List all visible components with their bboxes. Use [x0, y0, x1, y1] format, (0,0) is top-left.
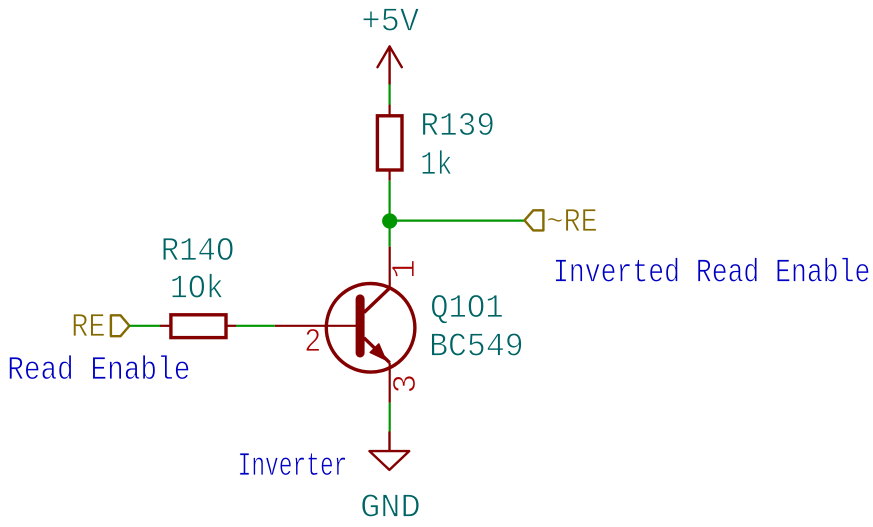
svg-text:2: 2: [304, 324, 321, 361]
wire +5V to R139: [389, 84, 391, 105]
svg-text:1: 1: [387, 259, 424, 279]
pin 2 base: [275, 325, 360, 327]
transistor Q101 body: [326, 284, 415, 373]
wire RE to R140: [129, 325, 160, 327]
svg-text:GND: GND: [360, 489, 421, 526]
wire emitter to GND: [389, 403, 391, 432]
ground symbol GND: [370, 432, 410, 470]
wire R140 to base: [236, 325, 275, 327]
svg-text:1k: 1k: [420, 147, 452, 184]
svg-text:Read Enable: Read Enable: [7, 352, 190, 389]
svg-text:Inverter: Inverter: [238, 448, 348, 485]
resistor R140: [160, 315, 236, 338]
resistor R139: [377, 105, 402, 181]
svg-text:R14O: R14O: [161, 233, 235, 270]
svg-text:Q1O1: Q1O1: [430, 290, 504, 327]
pin 3 emitter: [389, 363, 391, 403]
global label RE: [71, 309, 129, 346]
pin 1 collector: [389, 247, 391, 288]
svg-text:3: 3: [388, 374, 425, 394]
wire R139 to collector node: [389, 181, 391, 247]
svg-text:RE: RE: [71, 309, 106, 346]
junction node: [382, 213, 397, 228]
svg-text:~RE: ~RE: [546, 204, 597, 241]
global label ~RE: [525, 204, 598, 241]
svg-text:1Ok: 1Ok: [170, 271, 224, 308]
svg-text:Inverted Read Enable: Inverted Read Enable: [553, 255, 870, 292]
svg-text:+5V: +5V: [361, 3, 419, 40]
svg-text:R139: R139: [420, 108, 495, 145]
power symbol +5V: [378, 47, 402, 85]
svg-text:BC549: BC549: [429, 329, 524, 366]
wire node to ~RE label: [390, 220, 525, 222]
